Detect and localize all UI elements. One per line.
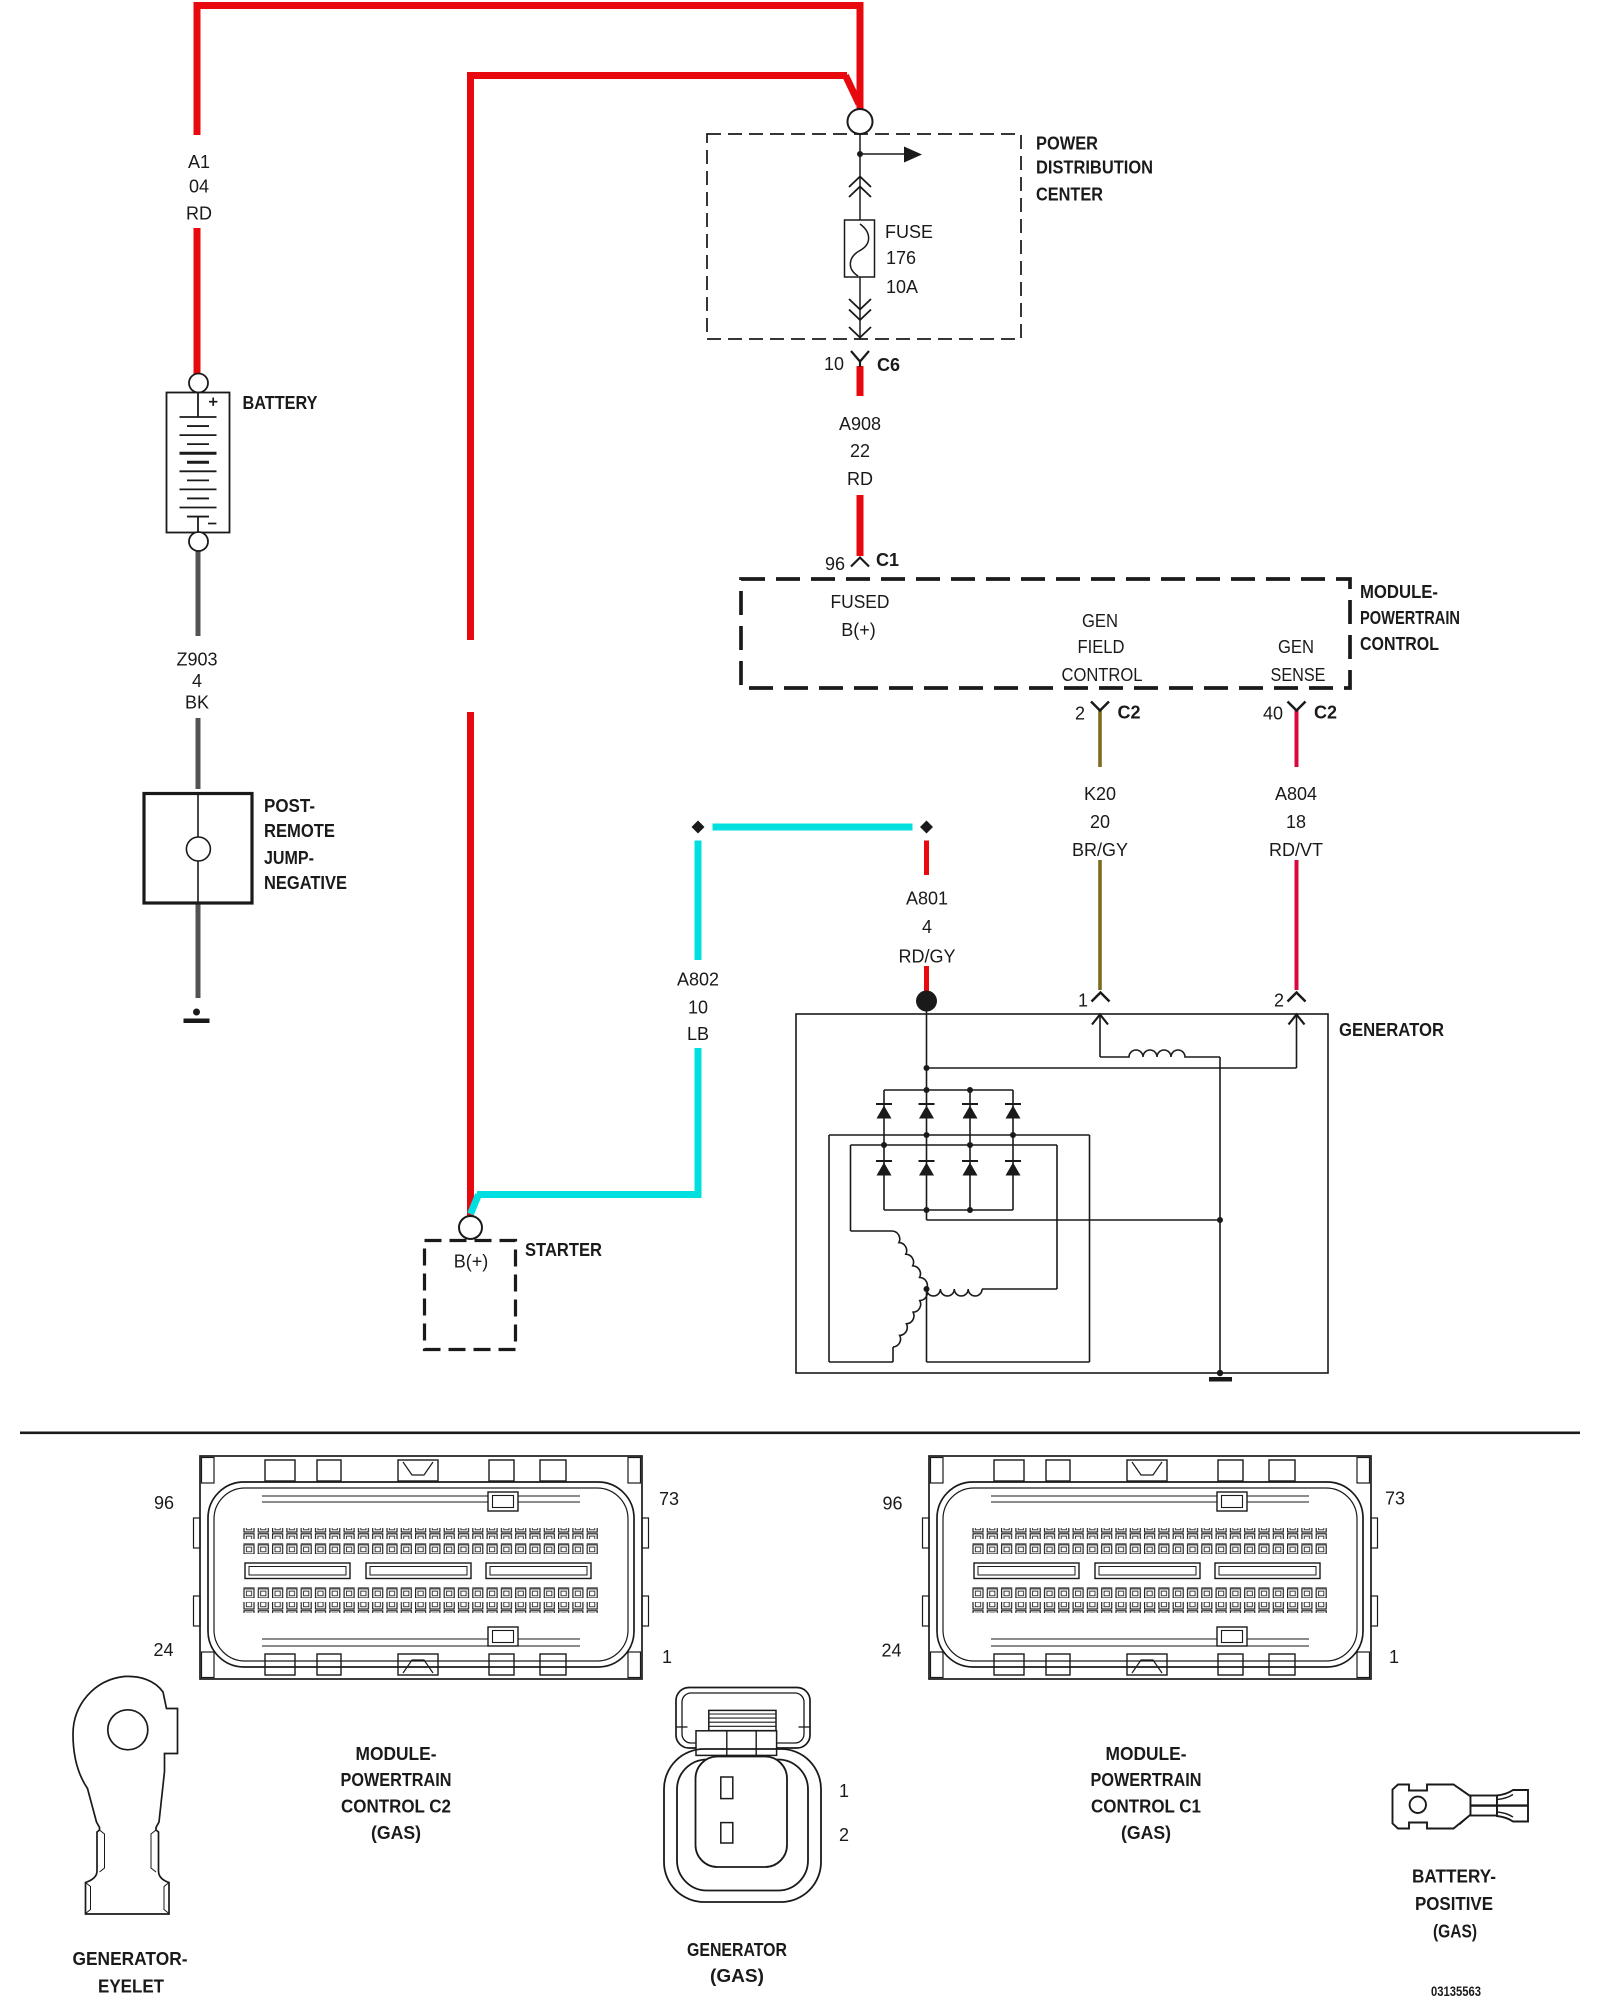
svg-text:CONTROL: CONTROL (1062, 665, 1143, 685)
svg-text:4: 4 (922, 917, 932, 937)
svg-text:CENTER: CENTER (1036, 185, 1103, 205)
svg-text:03135563: 03135563 (1431, 1984, 1481, 1999)
svg-text:K20: K20 (1084, 784, 1116, 804)
svg-text:POSITIVE: POSITIVE (1415, 1894, 1493, 1914)
svg-text:Z903: Z903 (176, 650, 217, 670)
svg-text:JUMP-: JUMP- (264, 848, 314, 868)
svg-text:SENSE: SENSE (1271, 665, 1326, 685)
svg-text:4: 4 (192, 671, 202, 691)
svg-text:MODULE-: MODULE- (1106, 1744, 1187, 1764)
svg-text:73: 73 (659, 1489, 679, 1509)
svg-text:POWER: POWER (1036, 134, 1098, 154)
svg-text:BATTERY-: BATTERY- (1412, 1867, 1496, 1887)
svg-text:GENERATOR-: GENERATOR- (73, 1949, 188, 1969)
svg-text:CONTROL: CONTROL (1360, 634, 1439, 654)
svg-text:LB: LB (687, 1024, 709, 1044)
svg-text:1: 1 (662, 1647, 672, 1667)
svg-text:A802: A802 (677, 970, 719, 990)
svg-text:POST-: POST- (264, 796, 315, 816)
svg-text:(GAS): (GAS) (710, 1966, 764, 1986)
svg-text:EYELET: EYELET (98, 1977, 164, 1997)
svg-text:(GAS): (GAS) (1121, 1823, 1171, 1843)
svg-text:REMOTE: REMOTE (264, 821, 335, 841)
svg-text:FUSE: FUSE (885, 222, 933, 242)
svg-text:73: 73 (1385, 1489, 1405, 1509)
svg-text:GEN: GEN (1082, 611, 1118, 631)
svg-text:CONTROL C1: CONTROL C1 (1091, 1797, 1201, 1817)
svg-text:(GAS): (GAS) (1433, 1922, 1477, 1942)
svg-text:24: 24 (881, 1641, 901, 1661)
svg-text:C2: C2 (1118, 703, 1141, 723)
svg-text:RD/VT: RD/VT (1269, 840, 1323, 860)
svg-text:A801: A801 (906, 889, 948, 909)
svg-text:NEGATIVE: NEGATIVE (264, 873, 347, 893)
svg-text:GENERATOR: GENERATOR (687, 1940, 787, 1960)
svg-text:DISTRIBUTION: DISTRIBUTION (1036, 158, 1153, 178)
svg-text:C6: C6 (877, 355, 900, 375)
svg-text:04: 04 (189, 177, 209, 197)
svg-text:2: 2 (839, 1825, 849, 1845)
svg-text:MODULE-: MODULE- (356, 1744, 437, 1764)
svg-text:22: 22 (850, 441, 870, 461)
svg-text:176: 176 (886, 248, 916, 268)
svg-text:C2: C2 (1314, 703, 1337, 723)
svg-text:POWERTRAIN: POWERTRAIN (1360, 608, 1460, 628)
svg-text:96: 96 (882, 1494, 902, 1514)
svg-text:10: 10 (824, 354, 844, 374)
svg-text:96: 96 (154, 1493, 174, 1513)
svg-text:2: 2 (1274, 991, 1284, 1011)
svg-text:20: 20 (1090, 812, 1110, 832)
svg-text:A1: A1 (188, 152, 210, 172)
svg-text:POWERTRAIN: POWERTRAIN (1091, 1770, 1202, 1790)
svg-text:B(+): B(+) (841, 620, 876, 640)
svg-text:RD: RD (186, 204, 212, 224)
svg-text:1: 1 (1078, 991, 1088, 1011)
svg-text:GEN: GEN (1278, 637, 1314, 657)
svg-text:RD/GY: RD/GY (898, 947, 955, 967)
svg-text:40: 40 (1263, 704, 1283, 724)
svg-text:24: 24 (153, 1640, 173, 1660)
svg-text:(GAS): (GAS) (371, 1823, 421, 1843)
svg-text:BK: BK (185, 693, 209, 713)
svg-text:CONTROL C2: CONTROL C2 (341, 1797, 451, 1817)
svg-text:1: 1 (1389, 1647, 1399, 1667)
svg-text:B(+): B(+) (454, 1252, 489, 1272)
svg-text:10: 10 (688, 998, 708, 1018)
svg-text:BR/GY: BR/GY (1072, 840, 1128, 860)
svg-text:POWERTRAIN: POWERTRAIN (341, 1770, 452, 1790)
svg-text:RD: RD (847, 469, 873, 489)
svg-text:A908: A908 (839, 414, 881, 434)
svg-text:2: 2 (1075, 704, 1085, 724)
svg-text:C1: C1 (876, 550, 899, 570)
svg-text:FUSED: FUSED (831, 592, 890, 612)
svg-text:GENERATOR: GENERATOR (1339, 1020, 1444, 1040)
svg-text:18: 18 (1286, 812, 1306, 832)
svg-text:FIELD: FIELD (1078, 637, 1125, 657)
svg-text:STARTER: STARTER (525, 1240, 602, 1260)
svg-text:96: 96 (825, 554, 845, 574)
svg-text:BATTERY: BATTERY (243, 393, 318, 413)
svg-text:A804: A804 (1275, 784, 1317, 804)
svg-text:10A: 10A (886, 277, 918, 297)
svg-text:1: 1 (839, 1781, 849, 1801)
svg-text:MODULE-: MODULE- (1360, 582, 1438, 602)
